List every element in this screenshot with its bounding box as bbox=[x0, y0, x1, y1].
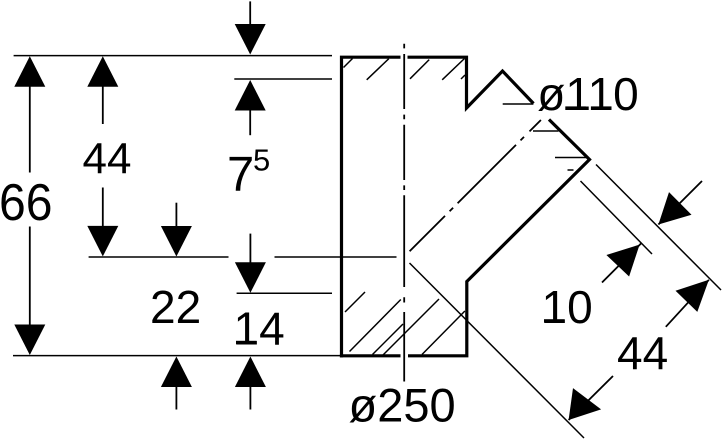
svg-text:44: 44 bbox=[83, 135, 132, 184]
svg-text:14: 14 bbox=[234, 302, 285, 354]
svg-text:ø250: ø250 bbox=[349, 379, 456, 432]
svg-text:44: 44 bbox=[617, 327, 668, 379]
dimension 7.5 arrows and stems bbox=[235, 24, 266, 111]
extension line A (outer corner) bbox=[596, 165, 721, 291]
leader line dia110 bbox=[503, 103, 534, 105]
svg-text:ø110: ø110 bbox=[537, 68, 638, 120]
dimension 44 right arrows and stems bbox=[569, 280, 709, 420]
extension line bottom bbox=[13, 355, 341, 357]
svg-text:5: 5 bbox=[253, 143, 270, 178]
vertical centerline bbox=[403, 44, 405, 382]
svg-text:22: 22 bbox=[150, 281, 201, 333]
dimension 66 arrows and stems bbox=[14, 56, 45, 355]
dimension 14 arrows and stems bbox=[235, 262, 266, 387]
extension line C (branch axis junction) bbox=[410, 263, 585, 438]
dimension 22 arrows and stems bbox=[161, 226, 192, 387]
svg-text:66: 66 bbox=[0, 174, 53, 232]
fitting body outline bbox=[340, 57, 590, 357]
branch centerline bbox=[410, 120, 541, 251]
extension line 7.5 lower bbox=[234, 78, 332, 80]
socket hatch ticks bbox=[533, 131, 586, 170]
extension line B (10 inner) bbox=[581, 181, 653, 254]
dimension 10 arrows and stems bbox=[606, 192, 691, 276]
hatching bottom section bbox=[345, 292, 465, 355]
svg-text:7: 7 bbox=[227, 148, 254, 202]
dimension 44 left arrows and stems bbox=[87, 56, 118, 256]
extension line top (66/44/7.5 reference) bbox=[14, 55, 332, 57]
extension line mid (44 bottom / 22 top) bbox=[89, 256, 397, 258]
svg-text:10: 10 bbox=[542, 281, 593, 333]
extension line 14 top bbox=[237, 292, 332, 294]
hatching top section bbox=[344, 59, 466, 80]
